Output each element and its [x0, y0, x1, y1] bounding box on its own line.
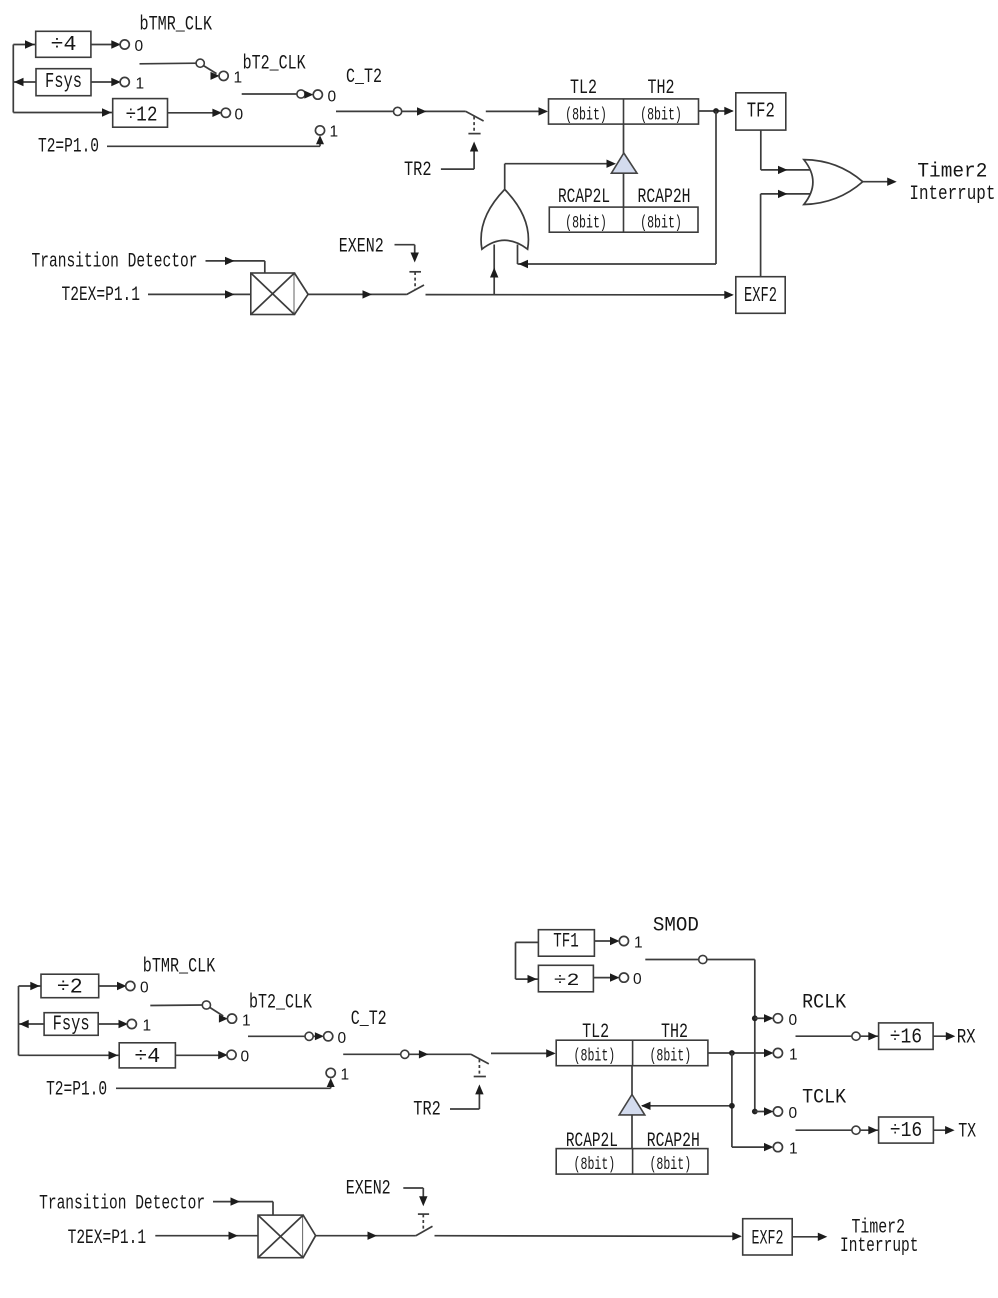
wire: overflow feedback down from junction [715, 111, 717, 264]
wire: EXEN2 label to arrow (bottom) [403, 1187, 423, 1189]
contact 0 of C_T2 mux [313, 90, 322, 99]
capture register RCAP2L/RCAP2H box [549, 207, 698, 232]
wire: EXF2 to OR input 2 [761, 193, 813, 195]
wire: EXF2 up to interrupt OR [760, 194, 762, 277]
svg-text:1: 1 [234, 70, 243, 87]
flag box EXF2 [736, 277, 785, 314]
TR2 switch blade [466, 111, 484, 121]
svg-text:÷2: ÷2 [57, 977, 83, 1000]
switch blade C_T2 mux [336, 110, 394, 112]
pole of RCLK mux [852, 1032, 860, 1040]
svg-text:RCLK: RCLK [802, 992, 846, 1015]
transition detector box (XOR) [251, 273, 295, 315]
junction on TH2-TF2 wire [713, 108, 719, 114]
wire: feedback bus left vertical [12, 45, 14, 113]
TCLK contact 0 [773, 1107, 782, 1116]
contact 0 of bTMR_CLK mux [120, 40, 129, 49]
svg-text:RX: RX [957, 1027, 976, 1050]
wire: EXEN2 switch to EXF2 [426, 294, 733, 296]
contact 0 of bTMR_CLK mux (bottom) [126, 981, 135, 990]
wire: T2EX into detector box [148, 293, 251, 295]
svg-text:1: 1 [634, 935, 643, 952]
wire: reload arrow into triangle [642, 1105, 732, 1107]
switch blade C_T2 mux (bottom) [343, 1053, 401, 1055]
junction on distribution at RCLK 0 [752, 1015, 758, 1021]
EXEN2 switch bar (bottom) [418, 1213, 429, 1215]
wire: switch to TL2 register [486, 110, 547, 112]
svg-text:÷2: ÷2 [554, 971, 580, 991]
wire: T2 pin to contact 1 of C_T2 (bottom) [116, 1087, 331, 1089]
wire: feedback to OR gate right input [518, 263, 717, 265]
transition detector box (bottom) [258, 1215, 303, 1258]
wire: detector output to EXEN2 switch (bottom) [316, 1235, 416, 1237]
svg-text:(8bit): (8bit) [574, 1047, 616, 1067]
wire: OR output to transfer triangle [505, 163, 611, 165]
wire: pole to contact 0 of C_T2 mux [305, 93, 310, 95]
contact 0 of SMOD mux [619, 973, 628, 982]
svg-text:1: 1 [789, 1141, 798, 1158]
svg-text:bT2_CLK: bT2_CLK [243, 53, 306, 76]
divider box /4 (bottom) [119, 1043, 175, 1068]
wire: TF2 to OR input 1 [761, 169, 813, 171]
wire: EXF2 to interrupt (bottom) [792, 1236, 823, 1238]
svg-text:RCAP2L: RCAP2L [566, 1130, 618, 1153]
wire: TF2 down to interrupt OR [760, 130, 762, 170]
svg-text:0: 0 [235, 107, 244, 124]
wire: EXEN2 label to arrow [395, 244, 415, 246]
svg-text:0: 0 [140, 980, 149, 997]
EXEN2 switch blade (bottom) [416, 1226, 433, 1235]
wire: triangle to RCAP2 divider [623, 173, 625, 207]
EXEN2 switch dashed stem [414, 272, 416, 289]
svg-text:Fsys: Fsys [45, 71, 82, 94]
TR2 switch dashed stem [473, 117, 475, 133]
svg-text:EXEN2: EXEN2 [346, 1178, 391, 1201]
junction at reload branch [729, 1103, 735, 1109]
svg-text:TL2: TL2 [582, 1021, 609, 1044]
TR2 switch blade (bottom) [471, 1054, 489, 1064]
pole of TCLK mux [852, 1126, 860, 1134]
svg-text:TH2: TH2 [648, 77, 675, 100]
wire: TCLK pole to /16 [860, 1129, 879, 1131]
svg-text:Interrupt: Interrupt [840, 1235, 919, 1258]
svg-text:1: 1 [341, 1067, 350, 1084]
svg-text:TF1: TF1 [553, 931, 579, 954]
svg-text:1: 1 [330, 124, 339, 141]
divider box /2 [41, 974, 99, 998]
divider of RCAP2 [623, 207, 625, 232]
switch blade bT2_CLK mux [242, 93, 298, 95]
wire: C_T2 pole to TR2 switch (bottom) [409, 1053, 471, 1055]
EXEN2 switch dashed stem (bottom) [422, 1214, 424, 1230]
pole of SMOD mux [699, 955, 707, 963]
svg-text:(8bit): (8bit) [640, 213, 682, 233]
wire: TH2 output to RCLK contact 1 [708, 1052, 770, 1054]
svg-text:TCLK: TCLK [802, 1087, 846, 1110]
svg-text:(8bit): (8bit) [574, 1155, 616, 1175]
wire: Fsys output to left bus [14, 81, 36, 83]
flag box EXF2 (bottom) [743, 1219, 793, 1255]
divider of TL2/TH2 (bottom) [632, 1040, 634, 1066]
wire: RCLK pole to /16 [860, 1035, 879, 1037]
wire: TR2 label to switch [441, 168, 474, 170]
svg-text:TH2: TH2 [661, 1021, 688, 1044]
svg-text:bT2_CLK: bT2_CLK [249, 992, 312, 1015]
svg-text:Timer2: Timer2 [917, 160, 987, 183]
wire: capture OR gate left input riser [493, 245, 495, 295]
pole of bT2_CLK mux [297, 90, 305, 98]
transfer triangle T1 [611, 153, 637, 173]
wire: transition detector into XOR box (bottom) [213, 1201, 273, 1203]
svg-text:0: 0 [338, 1030, 347, 1047]
wire: switch to TL2 register (bottom) [491, 1052, 554, 1054]
wire: into divider /2 [19, 985, 42, 987]
svg-text:1: 1 [136, 76, 145, 93]
wire: Fsys output to contact 1 [91, 81, 117, 83]
svg-text:÷16: ÷16 [890, 1120, 923, 1143]
svg-text:TX: TX [958, 1120, 976, 1143]
wire: TL2/TH2 divider down to triangle (bottom) [631, 1066, 633, 1095]
wire: /2 output to contact 0 [593, 977, 615, 979]
svg-text:(8bit): (8bit) [565, 213, 607, 233]
svg-text:TF2: TF2 [747, 101, 775, 124]
switch blade bT2_CLK mux (bottom) [248, 1035, 305, 1037]
switch blade TCLK mux [796, 1129, 852, 1131]
capture register RCAP2L/RCAP2H box (bottom) [556, 1149, 708, 1175]
svg-text:RCAP2L: RCAP2L [558, 186, 610, 209]
contact 0 of bT2_CLK mux (bottom) [227, 1050, 236, 1059]
pole of C_T2 mux (bottom) [401, 1050, 409, 1058]
svg-text:TR2: TR2 [413, 1099, 441, 1122]
svg-text:(8bit): (8bit) [565, 105, 607, 125]
pole of bTMR_CLK mux [196, 59, 204, 67]
RCLK contact 0 [773, 1014, 782, 1023]
divider of RCAP2 (bottom) [632, 1149, 634, 1175]
wire: OR gate output up [504, 164, 506, 190]
wire: /4 output to contact 0 [91, 44, 117, 46]
wire: triangle down to RCAP2 (bottom) [631, 1115, 633, 1149]
switch blade bTMR_CLK mux (bottom) [150, 1004, 202, 1007]
svg-text:0: 0 [135, 38, 144, 55]
EXEN2 control arrow [414, 245, 416, 255]
svg-text:(8bit): (8bit) [640, 105, 682, 125]
wire: clock distribution vertical [754, 960, 756, 1112]
divider of TL2/TH2 [623, 99, 625, 124]
contact 0 of C_T2 mux (bottom) [324, 1032, 333, 1041]
switch blade bTMR_CLK mux [140, 62, 197, 65]
svg-text:T2=P1.0: T2=P1.0 [46, 1079, 107, 1102]
svg-text:(8bit): (8bit) [649, 1047, 691, 1067]
contact 0 of bT2_CLK mux [221, 108, 230, 117]
wire: bus into divider /12 [13, 112, 112, 114]
box Fsys (bottom) [44, 1013, 98, 1036]
svg-text:T2EX=P1.1: T2EX=P1.1 [68, 1227, 147, 1250]
contact 1 of bT2_CLK mux [219, 71, 228, 80]
divider box /16 (TX) [879, 1117, 934, 1143]
wire: T2EX into detector box (bottom) [155, 1235, 258, 1237]
wire: EXEN2 switch to EXF2 (bottom) [435, 1235, 741, 1238]
wire: interrupt OR output [863, 181, 892, 183]
contact 1 of C_T2 mux (bottom) [326, 1068, 335, 1077]
flag box TF2 [736, 93, 786, 130]
wire: feedback bus left vertical (bottom) [18, 986, 20, 1055]
svg-text:Transition Detector: Transition Detector [32, 251, 198, 274]
svg-text:bTMR_CLK: bTMR_CLK [140, 14, 213, 37]
svg-text:1: 1 [143, 1018, 152, 1035]
box Fsys [36, 69, 91, 96]
pole of bTMR_CLK mux (bottom) [202, 1001, 210, 1009]
EXEN2 switch blade [406, 285, 424, 295]
OR gate U1 (capture/reload trigger) [481, 189, 528, 249]
divider box /2 (SMOD) [538, 965, 593, 992]
wire: to TCLK contact 1 [732, 1146, 770, 1148]
junction at distribution bottom [752, 1109, 758, 1115]
OR gate U2 (interrupt) [804, 160, 863, 205]
svg-text:(8bit): (8bit) [649, 1155, 691, 1175]
transfer triangle T2 (bottom) [619, 1095, 645, 1115]
flag box TF1 [538, 930, 594, 957]
EXEN2 switch bar [409, 271, 421, 273]
divider box /16 (RX) [879, 1023, 934, 1050]
wire: pole to contact 1 of bT2_CLK mux [204, 66, 217, 74]
wire: TF1 to /2 bracket [516, 941, 539, 943]
wire: to TCLK contact 0 [755, 1111, 770, 1113]
wire: pole to contact 1 of bT2_CLK (bottom) [210, 1007, 224, 1016]
wire: to RCLK contact 0 [755, 1017, 770, 1019]
svg-text:÷4: ÷4 [134, 1046, 160, 1069]
wire: /2 output to contact 0 [99, 985, 123, 987]
svg-text:0: 0 [789, 1105, 798, 1122]
svg-text:TR2: TR2 [404, 159, 432, 182]
svg-text:RCAP2H: RCAP2H [647, 1130, 700, 1153]
wire: detector output to EXEN2 switch [308, 293, 406, 295]
svg-text:EXF2: EXF2 [752, 1228, 784, 1251]
wire: TR2 label to switch (bottom) [450, 1108, 479, 1110]
svg-text:EXEN2: EXEN2 [339, 235, 384, 258]
pole of bT2_CLK mux (bottom) [305, 1032, 313, 1040]
contact 1 of bTMR_CLK mux (bottom) [127, 1019, 136, 1028]
contact 1 of bTMR_CLK mux [120, 77, 129, 86]
svg-text:0: 0 [633, 971, 642, 988]
svg-text:1: 1 [242, 1013, 251, 1030]
wire: /4 output to contact 0 (bottom) [175, 1054, 223, 1056]
svg-text:÷16: ÷16 [890, 1026, 923, 1049]
TCLK contact 1 [773, 1143, 782, 1152]
contact 1 of C_T2 mux [315, 126, 324, 135]
svg-text:C_T2: C_T2 [346, 66, 382, 89]
TR2 switch bar (bottom) [474, 1076, 486, 1078]
junction on TH2 output [729, 1050, 735, 1056]
wire: TF1 output to contact 1 [594, 940, 615, 942]
pole of C_T2 mux [394, 107, 402, 115]
register TL2/TH2 box (bottom) [556, 1040, 708, 1066]
RCLK contact 1 [773, 1048, 782, 1057]
wire: transition detector into XOR box top [206, 260, 265, 262]
svg-text:Transition Detector: Transition Detector [39, 1192, 205, 1215]
wire: T2 pin to contact 1 of C_T2 mux [107, 145, 320, 147]
TR2 control arrow [473, 150, 475, 170]
svg-text:EXF2: EXF2 [744, 285, 777, 308]
svg-text:TL2: TL2 [570, 77, 597, 100]
contact 1 of bT2_CLK mux (bottom) [227, 1014, 236, 1023]
wire: into divider /4 [13, 44, 35, 46]
wire: /16 to RX [933, 1035, 951, 1037]
svg-text:0: 0 [241, 1049, 250, 1066]
divider box /4 [36, 31, 91, 57]
svg-text:Interrupt: Interrupt [909, 183, 995, 206]
wire: SMOD pole to clock distribution [707, 959, 755, 961]
svg-text:C_T2: C_T2 [351, 1008, 387, 1031]
svg-text:1: 1 [789, 1047, 798, 1064]
wire: /16 to TX [933, 1129, 950, 1131]
svg-text:SMOD: SMOD [653, 915, 699, 938]
wire: pole to contact 0 of C_T2 (bottom) [313, 1035, 319, 1037]
wire: TH2 output down branch [731, 1053, 733, 1147]
svg-text:Fsys: Fsys [53, 1013, 90, 1036]
svg-text:0: 0 [789, 1012, 798, 1029]
wire: Fsys output to left bus (bottom) [19, 1023, 44, 1025]
TR2 switch bar [468, 133, 480, 135]
switch blade SMOD mux [645, 959, 698, 961]
svg-text:0: 0 [328, 89, 337, 106]
wire: /12 output to contact 0 [168, 112, 218, 114]
contact 1 of SMOD mux [619, 936, 628, 945]
svg-text:÷12: ÷12 [126, 105, 158, 128]
TR2 switch dashed stem (bottom) [478, 1059, 480, 1075]
wire: Fsys to contact 1 (bottom) [98, 1023, 124, 1025]
TR2 control arrow (bottom) [478, 1092, 480, 1109]
svg-text:RCAP2H: RCAP2H [638, 186, 691, 209]
register TL2/TH2 box [549, 99, 699, 124]
wire: riser into OR gate [517, 245, 519, 265]
divider box /12 [113, 99, 168, 128]
wire: TH2 to TF2 [699, 110, 733, 112]
switch blade RCLK mux [796, 1035, 852, 1037]
svg-text:÷4: ÷4 [51, 34, 77, 57]
svg-text:T2=P1.0: T2=P1.0 [38, 136, 99, 159]
wire: bus into divider /4 (bottom) [19, 1054, 120, 1056]
wire: TL2/TH2 divider down to triangle [623, 124, 625, 154]
svg-text:T2EX=P1.1: T2EX=P1.1 [62, 284, 141, 307]
svg-text:bTMR_CLK: bTMR_CLK [143, 956, 216, 979]
wire: C_T2 pole to TR2 switch [402, 110, 466, 112]
EXEN2 control arrow (bottom) [422, 1188, 424, 1198]
